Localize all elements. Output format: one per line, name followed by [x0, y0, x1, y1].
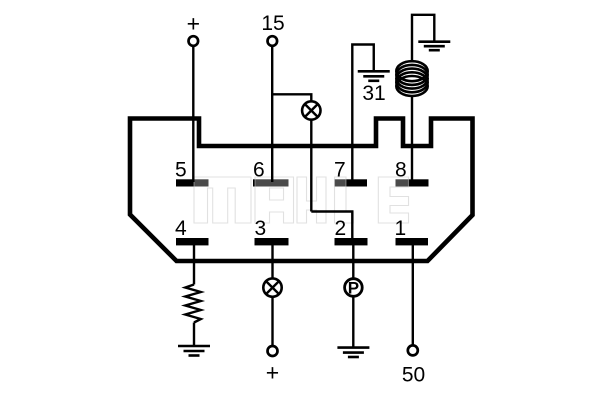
svg-text:4: 4: [175, 217, 187, 240]
wire: pin 4 down to resistor: [193, 240, 195, 285]
ground (resistor): [178, 346, 210, 356]
pin 4 contact bar: [176, 238, 209, 245]
MAHLE watermark: [194, 177, 409, 223]
pin 1 contact bar: [396, 238, 429, 245]
connector housing outline: [130, 119, 473, 262]
terminal 50: [408, 345, 418, 355]
ground (coil, top right): [418, 42, 450, 51]
terminal + (top): [189, 36, 199, 46]
wire: lamp to pin 2: [311, 212, 352, 241]
svg-text:7: 7: [334, 159, 346, 182]
svg-text:2: 2: [335, 217, 347, 240]
relay coil L1: [396, 61, 427, 96]
svg-text:3: 3: [255, 217, 267, 240]
wire: branch 15 to indicator lamp: [272, 94, 311, 211]
svg-text:+: +: [266, 360, 279, 386]
svg-text:5: 5: [175, 159, 187, 182]
resistor R1: [185, 285, 201, 323]
wire: pin 3 down through lamp to + terminal: [271, 240, 273, 347]
indicator lamp (bottom): [263, 278, 281, 296]
terminal + (bottom): [268, 346, 278, 356]
wire: pin 1 down to terminal 50: [412, 240, 414, 346]
pin 5 contact bar: [176, 179, 209, 186]
pin 2 contact bar: [335, 238, 368, 245]
ground 31 symbol: [358, 71, 390, 81]
terminal 15: [268, 36, 278, 46]
svg-text:31: 31: [362, 82, 385, 105]
wire: terminal 15 to pin 6: [271, 46, 273, 182]
svg-text:1: 1: [395, 217, 407, 240]
pin 6 contact bar: [253, 179, 289, 186]
wire: + terminal to pin 5: [192, 46, 194, 182]
pressure switch P: [345, 279, 363, 298]
pin 8 contact bar: [396, 179, 429, 186]
svg-text:P: P: [348, 279, 359, 298]
svg-text:50: 50: [402, 364, 425, 387]
pin 7 contact bar: [335, 179, 368, 186]
wire: pin 8 up to coil: [411, 97, 413, 183]
wire: resistor to ground: [193, 323, 195, 347]
pin 3 contact bar: [255, 238, 289, 245]
svg-text:+: +: [187, 10, 200, 36]
svg-text:15: 15: [261, 12, 284, 35]
ground (P switch): [337, 348, 369, 357]
wire: coil to top ground: [412, 15, 434, 62]
svg-text:8: 8: [395, 159, 407, 182]
svg-text:6: 6: [253, 159, 265, 182]
wire: pin 7 to ground 31: [352, 45, 373, 183]
wire: pin 2 down through P switch to ground: [352, 240, 354, 348]
indicator lamp (top): [302, 101, 320, 119]
